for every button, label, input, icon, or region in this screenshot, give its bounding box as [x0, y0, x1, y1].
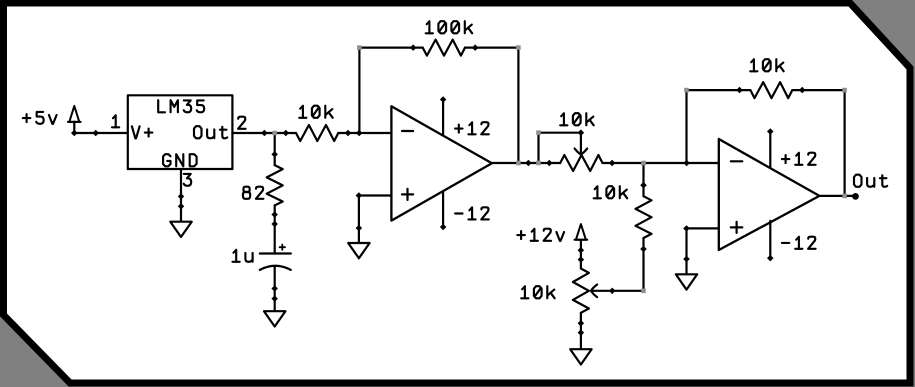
wire feedback top right — [465, 46, 518, 48]
net-merge mark G6 at (538,163) — [536, 161, 541, 166]
net-merge mark G8 at (644,291) — [641, 289, 646, 294]
node: tee to 82 ohm branch — [274, 133, 276, 165]
junction dot J3 at (264,133) — [261, 130, 268, 136]
junction dot J26 at (644,249) — [640, 246, 647, 252]
ground for C1 — [264, 311, 285, 326]
label +12 (U3) — [785, 155, 787, 163]
wire tee down to R5 — [642, 163, 644, 196]
wire R5 bottom to pot wiper row — [642, 238, 644, 291]
op-amp U2 triangle — [391, 106, 492, 220]
value 1u (C1) — [234, 250, 237, 262]
junction dot J33 at (802,90) — [799, 87, 806, 94]
wire feedback loop right vertical to output — [517, 48, 519, 163]
pin name V+ — [132, 126, 140, 138]
net-merge mark G7 at (644,163) — [641, 161, 646, 166]
resistor R1 100k body — [423, 40, 465, 56]
resistor R2 10k body — [296, 125, 338, 141]
ground for pot R6 — [570, 349, 591, 364]
junction dot J27 at (612,291) — [609, 288, 616, 295]
op-amp U3 non-inverting input symbol — [731, 226, 743, 228]
junction dot J24 at (581,133) — [578, 129, 585, 136]
wire feedback loop right vertical to output (U3) — [843, 90, 845, 196]
junction dot J29 at (581,260) — [578, 256, 585, 263]
value 10k (R7) — [751, 59, 754, 71]
label +5v — [26, 114, 28, 122]
op-amp U2 V- power pin — [442, 191, 444, 227]
junction dot J15 at (475,48) — [472, 44, 479, 51]
value 100k (R1) — [427, 21, 430, 33]
ground for LM35 — [170, 222, 191, 237]
wire feedback top right (U3) — [792, 89, 844, 91]
junction dot J1 at (74,133) — [71, 130, 78, 136]
net-merge mark G3 at (518,48) — [516, 45, 521, 50]
op-amp U3 V+ power pin — [769, 132, 771, 169]
junction dot J2 at (96,133) — [93, 130, 100, 136]
op-amp U3 triangle — [719, 139, 820, 250]
wire 82 to capacitor C1 — [274, 205, 276, 253]
op-amp U2 V+ power pin — [442, 100, 444, 136]
junction dot J35 at (770,258) — [767, 255, 774, 262]
junction dot J20 at (528,163) — [525, 160, 532, 166]
value 10k (R6) — [522, 286, 525, 298]
label Out — [854, 175, 862, 187]
junction dot J28 at (581,250) — [578, 247, 585, 254]
pin name GND — [163, 154, 170, 166]
rheostat R4 10k body — [560, 155, 602, 171]
capacitor C1 1u (polarized) — [260, 252, 291, 254]
label +12 (U2) — [458, 125, 460, 133]
+12v supply arrow — [576, 224, 586, 240]
junction dot J8 at (275,214) — [271, 211, 278, 218]
junction dot J14 at (413,48) — [410, 44, 417, 51]
wire pot bottom to ground — [580, 313, 582, 349]
junction dot J23 at (687,163) — [683, 160, 690, 166]
value 10k (R4) — [561, 113, 564, 125]
junction dot J12 at (181,196) — [178, 193, 184, 200]
junction dot J31 at (581,333) — [578, 329, 585, 336]
wire feedback loop U2 left vertical — [358, 48, 360, 133]
value 10k (R5) — [595, 186, 598, 198]
+5v supply arrow — [69, 106, 79, 122]
wire op-amp U3 + input to ground — [687, 227, 719, 229]
wire feedback top left (U3) — [687, 89, 751, 91]
junction dot J22 at (612,163) — [609, 160, 616, 166]
rheostat R4 wiper jumper — [537, 133, 539, 163]
net-merge mark G10 at (845,90) — [842, 88, 847, 93]
junction dot J17 at (443,227) — [440, 224, 447, 230]
net-merge mark G11 at (845,196) — [842, 194, 847, 199]
wire C1 to ground — [274, 267, 276, 311]
label -12 (U2) — [455, 212, 462, 214]
junction dot J13 at (181,206) — [178, 203, 184, 210]
resistor R3 82 body — [267, 165, 283, 205]
label LM35 — [158, 100, 165, 112]
junction dot J19 at (359,228) — [356, 225, 363, 232]
junction dot J5 at (348,133) — [345, 130, 351, 136]
op-amp U2 non-inverting input symbol — [402, 193, 413, 195]
junction dot J6 at (359,133) — [356, 130, 363, 136]
junction dot J32 at (740,90) — [736, 87, 743, 94]
wire LM35 Out (pin 2) to 10k R2 and op-amp inverting input — [232, 132, 296, 134]
junction dot J37 at (686,259) — [683, 256, 690, 262]
rheostat R4 wiper arrow — [580, 133, 582, 152]
junction dot J7 at (275,154) — [271, 151, 278, 158]
junction dot J11 at (275,299) — [271, 295, 278, 302]
junction dot J16 at (443,100) — [440, 96, 447, 103]
IC U1 LM35 body — [128, 95, 233, 169]
junction dot J36 at (686,228) — [683, 225, 690, 232]
op-amp U2 inverting input symbol — [402, 130, 413, 132]
value 10k (R2) — [300, 106, 303, 118]
wire U2 output to rheostat — [492, 162, 560, 164]
junction dot J9 at (275,224) — [271, 221, 278, 227]
junction dot J25 at (644,185) — [640, 182, 647, 189]
pin number 2 — [238, 117, 246, 129]
net-merge mark G9 at (686,90) — [684, 88, 689, 93]
op-amp U3 inverting input symbol — [731, 160, 743, 162]
label +12v — [520, 231, 522, 239]
Out terminal dot — [852, 193, 859, 200]
ground for U3 + input — [676, 274, 697, 289]
wire feedback top left — [359, 46, 422, 48]
wire op-amp U2 + input to ground — [359, 194, 392, 196]
value 82 (R3) — [243, 187, 249, 192]
resistor R5 10k body — [636, 196, 652, 238]
junction dot J4 at (286,133) — [283, 130, 290, 136]
pot R6 wiper arrow — [591, 285, 597, 298]
junction dot J30 at (581,323) — [578, 320, 585, 327]
wire LM35 GND (pin 3) down — [180, 169, 182, 222]
pin number 1 — [113, 115, 116, 127]
pin name Out — [194, 126, 202, 138]
junction dot J34 at (770,132) — [767, 128, 774, 135]
resistor R7 10k body — [750, 82, 792, 98]
potentiometer R6 10k body — [573, 269, 589, 313]
junction dot J10 at (275,288) — [271, 285, 278, 292]
junction dot J18 at (359,196) — [356, 192, 363, 199]
net-merge mark G5 at (538,133) — [536, 130, 541, 135]
wire U3 output to Out terminal — [819, 195, 853, 197]
label -12 (U3) — [782, 242, 789, 244]
pin number 3 — [184, 174, 192, 186]
wire +5v to LM35 V+ (pin 1) — [74, 132, 128, 134]
ground for U2 + input — [348, 243, 369, 258]
net-merge mark G4 at (518,163) — [516, 161, 521, 166]
wire feedback loop U3 left vertical — [685, 90, 687, 163]
net-merge mark G1 at (275,133) — [272, 131, 277, 136]
op-amp U3 V- power pin — [769, 221, 771, 258]
junction dot J21 at (549,163) — [546, 160, 553, 166]
wire rheostat to R5 tee and op-amp U3 — [603, 162, 719, 164]
net-merge mark G2 at (359,48) — [357, 45, 362, 50]
